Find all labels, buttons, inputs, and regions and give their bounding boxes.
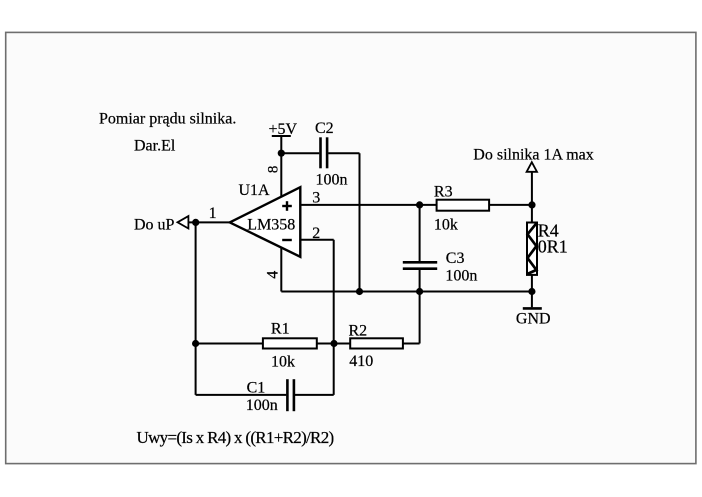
svg-text:U1A: U1A (239, 182, 271, 199)
svg-text:R3: R3 (434, 183, 453, 200)
svg-text:100n: 100n (246, 397, 278, 414)
svg-text:10k: 10k (434, 216, 458, 233)
svg-text:C2: C2 (315, 120, 334, 137)
svg-text:3: 3 (312, 190, 320, 207)
svg-text:+5V: +5V (269, 121, 298, 138)
svg-text:Do uP: Do uP (134, 216, 175, 233)
svg-text:C3: C3 (446, 250, 465, 267)
svg-text:C1: C1 (247, 380, 266, 397)
svg-text:10k: 10k (271, 353, 295, 370)
svg-text:8: 8 (265, 166, 281, 174)
svg-text:2: 2 (312, 225, 320, 242)
svg-text:Uwy=(Is x R4) x ((R1+R2)/R2): Uwy=(Is x R4) x ((R1+R2)/R2) (137, 428, 334, 447)
svg-text:Dar.El: Dar.El (134, 137, 176, 154)
svg-text:1: 1 (209, 205, 217, 222)
svg-text:100n: 100n (316, 171, 348, 188)
svg-text:R1: R1 (271, 320, 290, 337)
svg-text:Pomiar prądu silnika.: Pomiar prądu silnika. (99, 111, 236, 128)
svg-text:LM358: LM358 (247, 216, 295, 233)
svg-text:0R1: 0R1 (538, 236, 568, 256)
svg-text:GND: GND (516, 310, 551, 327)
svg-text:100n: 100n (445, 268, 477, 285)
svg-text:Do silnika 1A max: Do silnika 1A max (473, 146, 593, 163)
svg-text:4: 4 (265, 271, 282, 279)
svg-text:410: 410 (349, 353, 373, 370)
svg-text:R2: R2 (349, 322, 368, 339)
